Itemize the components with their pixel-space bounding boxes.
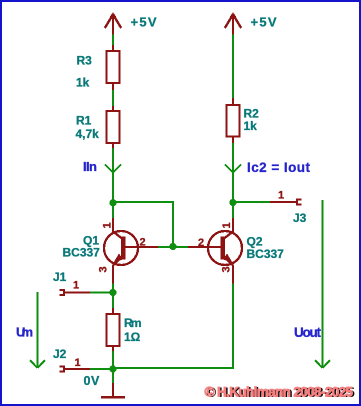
svg-text:1: 1 xyxy=(278,190,284,202)
svg-text:3: 3 xyxy=(98,266,110,272)
svg-text:1k: 1k xyxy=(244,119,258,133)
svg-text:BC337: BC337 xyxy=(247,247,285,261)
svg-text:Ic2 = Iout: Ic2 = Iout xyxy=(247,160,311,175)
svg-text:2: 2 xyxy=(140,237,146,249)
svg-text:+5V: +5V xyxy=(131,15,157,30)
svg-text:+5V: +5V xyxy=(251,15,277,30)
svg-text:1: 1 xyxy=(102,222,114,228)
svg-text:1: 1 xyxy=(75,357,81,369)
svg-text:R3: R3 xyxy=(77,54,93,68)
svg-text:J3: J3 xyxy=(293,211,307,225)
svg-text:1k: 1k xyxy=(76,76,90,90)
svg-text:1Ω: 1Ω xyxy=(124,330,141,344)
svg-text:R1: R1 xyxy=(76,114,92,128)
svg-text:BC337: BC337 xyxy=(63,246,101,260)
svg-text:2: 2 xyxy=(198,237,204,249)
svg-text:Uout: Uout xyxy=(294,325,322,340)
svg-text:J2: J2 xyxy=(53,347,67,361)
svg-text:1: 1 xyxy=(221,222,233,228)
svg-text:Rm: Rm xyxy=(124,316,142,330)
svg-text:© H.Kuhlmann 2008-2025: © H.Kuhlmann 2008-2025 xyxy=(205,385,354,400)
svg-text:0V: 0V xyxy=(84,374,101,388)
svg-text:Um: Um xyxy=(16,325,33,340)
svg-text:1: 1 xyxy=(73,280,79,292)
svg-text:3: 3 xyxy=(221,266,233,272)
svg-text:IIn: IIn xyxy=(83,159,97,174)
svg-text:4,7k: 4,7k xyxy=(76,127,100,141)
svg-text:J1: J1 xyxy=(53,270,67,284)
